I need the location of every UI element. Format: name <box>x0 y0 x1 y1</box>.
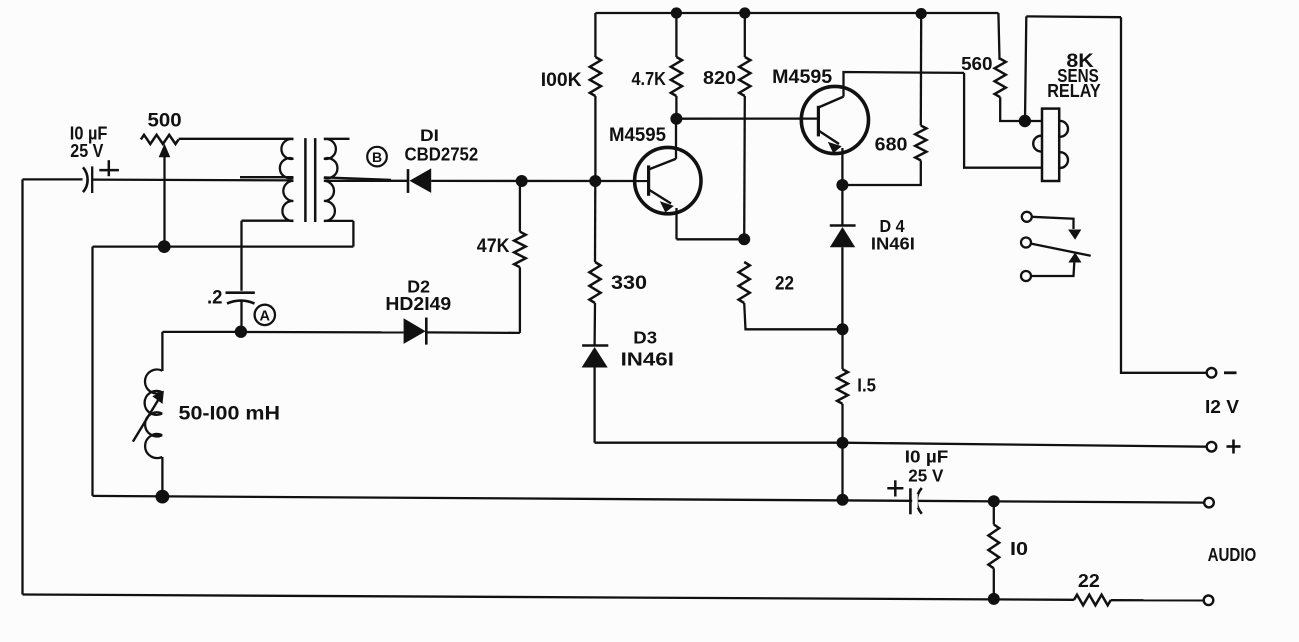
label minus sign <box>1224 371 1237 374</box>
label 680 <box>875 134 908 155</box>
wire Q1 emitter down <box>675 208 677 239</box>
wire top rail segment 2 (relay to minus) <box>1026 15 1121 18</box>
svg-text:HD2I49: HD2I49 <box>385 293 451 314</box>
transformer T1 secondary winding (right, 4 loops) <box>324 139 338 221</box>
resistor 22 zigzag (audio series) <box>1074 595 1111 606</box>
junction dot inductor / mid rail <box>156 490 170 504</box>
wire C2 bottom to node A dot <box>240 301 242 332</box>
wire 820 down to emitter junction crossing base line <box>743 96 746 239</box>
terminal circle minus <box>1207 368 1217 378</box>
label 10 <box>1010 539 1028 559</box>
label 330 <box>611 273 647 294</box>
wire 4.7K to Q2 base junction <box>675 96 677 119</box>
svg-text:25 V: 25 V <box>70 140 104 161</box>
junction dot bottom rail / 10 resistor <box>988 593 1000 605</box>
node B letter <box>372 149 382 165</box>
wire T1 primary bottom lead left <box>242 220 294 222</box>
wire base junction down to 330 <box>594 181 597 262</box>
junction dot D1 / 47K <box>516 175 528 187</box>
svg-text:I.5: I.5 <box>857 375 876 396</box>
wire 1.5 bottom to +12V line <box>841 404 843 443</box>
label 22 (audio series) <box>1078 571 1100 591</box>
capacitor C1 polarity + sign <box>99 160 119 176</box>
wire minus terminal from rail2 <box>1121 17 1207 373</box>
junction dot 4.7K / Q2 base / Q1 collector <box>670 113 682 125</box>
svg-text:50-I00 mH: 50-I00 mH <box>179 403 281 424</box>
label 820 <box>703 67 736 88</box>
svg-text:CBD2752: CBD2752 <box>405 144 479 165</box>
label D1 designator <box>420 127 439 145</box>
svg-text:560: 560 <box>961 53 992 74</box>
label C1 value 25V <box>70 140 104 161</box>
wire 47K top lead to node-B line <box>519 181 521 232</box>
label D3 part number 1N461 <box>621 348 674 369</box>
label plus sign <box>1227 440 1241 454</box>
wire emitter junction down to D4 <box>841 185 843 226</box>
wire +12V line from D3 to terminal <box>595 443 1207 447</box>
label relay SENS <box>1057 65 1099 86</box>
wire rail to 4.7K <box>675 13 677 57</box>
capacitor C3 polarity + sign <box>887 480 903 496</box>
junction dot 1.5 / +12V line <box>837 437 849 449</box>
junction dot 100K / base line <box>589 175 601 187</box>
capacitor C3 gap mask <box>912 494 918 508</box>
resistor 47K zigzag <box>514 232 526 268</box>
junction dot rail / 820 <box>739 7 750 18</box>
svg-text:22: 22 <box>1078 571 1100 591</box>
transistor Q1 emitter arrow head <box>660 201 674 212</box>
relay contact bottom fixed wire <box>1031 263 1074 277</box>
wire pot wiper vertical down to junction <box>163 156 165 247</box>
label AUDIO <box>1208 545 1257 565</box>
svg-text:22: 22 <box>775 274 794 295</box>
wire D3 anode down to +12V line corner <box>593 368 595 443</box>
relay contact top fixed wire <box>1032 217 1074 229</box>
wire T1 secondary bottom lead right <box>324 220 354 222</box>
wire mid rail to 10 resistor <box>993 501 995 524</box>
transistor Q1 emitter slant <box>649 190 671 204</box>
resistor 330 zigzag <box>589 262 600 303</box>
label R1 value 500 <box>148 111 182 132</box>
label relay RELAY <box>1047 80 1101 101</box>
junction dot 560 / relay coil / rail2 <box>1019 115 1031 127</box>
wire D2 to 47K corner <box>426 331 520 334</box>
diode D4 cathode bar <box>830 224 856 227</box>
transformer T1 primary winding (left, 4 loops) <box>280 139 294 221</box>
capacitor C3 curved plate <box>917 488 922 514</box>
svg-text:AUDIO: AUDIO <box>1208 545 1257 565</box>
transistor Q1 circle <box>635 147 701 213</box>
wire Q1 collector up to 4.7K junction <box>675 119 677 159</box>
resistor 560 zigzag <box>995 59 1006 97</box>
wire rail to 680 <box>920 13 923 126</box>
diode D2 HD2149 triangle <box>404 318 426 344</box>
resistor 4.7K zigzag <box>671 57 682 96</box>
relay contact terminal circle middle <box>1021 238 1031 248</box>
resistor 680 zigzag <box>915 126 926 161</box>
svg-text:4.7K: 4.7K <box>632 68 667 89</box>
svg-text:500: 500 <box>148 111 182 132</box>
svg-text:B: B <box>372 149 382 165</box>
wire T1 primary bottom down to C2 <box>240 221 242 291</box>
svg-text:330: 330 <box>611 273 647 294</box>
label Q1 type M4595 <box>609 125 666 146</box>
node B circle <box>367 147 387 167</box>
wire 1.5 junction down to mid rail <box>841 443 843 500</box>
wire secondary-return horizontal y246 <box>93 245 354 247</box>
wire 560 bottom to relay junction <box>1000 97 1025 121</box>
wire 22 bottom corner to D4 line <box>744 303 842 329</box>
label D4 designator <box>880 216 905 236</box>
label relay 8K <box>1066 50 1093 72</box>
diode D3 cathode bar <box>582 344 608 347</box>
wire relay junction to coil <box>1025 120 1042 122</box>
label 47K <box>477 236 510 257</box>
capacitor C2 0.2uF curved plate <box>227 301 255 304</box>
wire D1 to base of Q1 (node-B line) <box>431 180 648 182</box>
wire T1 secondary to D1 <box>386 180 408 182</box>
transistor Q2 emitter arrow head <box>828 142 842 153</box>
wire T1 secondary bottom down to return line <box>352 221 354 247</box>
junction dot 22 / D4 anode / 1.5 <box>837 323 849 335</box>
svg-text:M4595: M4595 <box>772 67 832 88</box>
capacitor C2 0.2uF top plate <box>226 291 255 294</box>
svg-text:47K: 47K <box>477 236 510 257</box>
wire mid rail <box>93 496 1205 503</box>
wire T1 primary lower lead tap stubs <box>240 176 293 178</box>
svg-text:DI: DI <box>420 127 439 145</box>
wire Q2 base line <box>676 117 818 119</box>
label D2 designator <box>407 277 430 297</box>
wire Q2 emitter down to junction <box>841 148 843 185</box>
svg-text:I0 µF: I0 µF <box>905 446 949 466</box>
diode D1 triangle (pointing left) <box>410 168 432 193</box>
svg-text:680: 680 <box>875 134 908 155</box>
wire from C1 to transformer primary centre tap <box>92 178 293 181</box>
label 4.7K <box>632 68 667 89</box>
wire 10 resistor to bottom rail <box>993 568 995 599</box>
label 100K <box>541 69 582 91</box>
resistor 100K zigzag <box>590 57 601 96</box>
transistor Q2 base bar <box>817 106 820 137</box>
wire pot right end to transformer primary top <box>179 138 294 140</box>
terminal circle audio top <box>1204 498 1214 508</box>
transistor Q1 collector slant <box>649 159 676 170</box>
wire 100K to base line junction <box>594 96 596 181</box>
svg-text:M4595: M4595 <box>609 125 666 146</box>
wire secondary-return corner down at x92 <box>91 247 93 496</box>
wire Q2 collector up and right <box>844 72 965 97</box>
svg-text:25 V: 25 V <box>908 465 943 485</box>
wire rail corner down to 560 <box>998 13 1000 59</box>
junction dot rail / 4.7K <box>671 7 682 18</box>
potentiometer R1 500 zigzag <box>141 135 179 144</box>
capacitor C1 10uF 25V (input coupling, curved plate) <box>83 167 88 192</box>
label 12 V <box>1205 396 1240 417</box>
inductor L1 variable arrow shaft <box>133 397 160 442</box>
relay contact terminal circle top <box>1022 212 1032 222</box>
wire top supply rail <box>595 12 998 14</box>
svg-text:IN46I: IN46I <box>871 233 915 253</box>
svg-text:IN46I: IN46I <box>621 348 674 369</box>
wire 22 to audio bottom terminal <box>1111 599 1204 601</box>
label L1 value 50-100 mH <box>179 403 281 424</box>
relay contact bottom arrow (up) <box>1068 253 1081 263</box>
terminal circle plus <box>1207 442 1217 452</box>
junction dot mid rail / 10 resistor <box>988 495 1000 507</box>
wire D4 anode down to 22/1.5 junction <box>841 247 843 329</box>
relay K1 coil left bump <box>1033 136 1042 152</box>
label Q2 type M4595 <box>772 67 832 88</box>
wire 330 to D3 <box>593 303 596 346</box>
wire Q2 collector down right side to relay coil bottom <box>964 73 1042 168</box>
junction dot Q2 emitter / 680 / D4 <box>836 179 848 191</box>
capacitor C3 10uF straight plate <box>909 488 912 514</box>
wire 47K bottom lead <box>519 267 521 333</box>
wire rail to 100K <box>594 13 596 57</box>
label C1 value 10uF <box>70 123 108 144</box>
svg-text:A: A <box>260 309 271 325</box>
diode D1 CBD2752 cathode bar <box>407 169 410 193</box>
label D2 part number HD2149 <box>385 293 451 314</box>
wire inductor bottom lead <box>161 457 163 497</box>
label D1 part number CBD2752 <box>405 144 479 165</box>
junction dot mid rail / 1.5 branch <box>837 494 849 506</box>
diode D4 triangle (pointing up) <box>830 227 855 247</box>
junction dot rail / 680 <box>916 8 927 19</box>
svg-text:.2: .2 <box>207 287 223 308</box>
diode D2 cathode bar <box>425 318 428 345</box>
relay K1 coil right bumps <box>1059 121 1068 168</box>
inductor L1 variable arrow head <box>152 391 164 404</box>
node A letter <box>260 309 271 325</box>
resistor 22 zigzag <box>739 262 750 303</box>
resistor 10 zigzag <box>988 525 999 569</box>
relay contact top arrow (down) <box>1068 230 1081 240</box>
relay K1 coil body rectangle <box>1042 109 1059 181</box>
resistor 820 zigzag <box>739 57 750 96</box>
terminal circle audio bottom <box>1204 596 1214 606</box>
label C3 value 25V <box>908 465 943 485</box>
svg-text:D3: D3 <box>633 328 657 348</box>
relay contact terminal circle bottom <box>1021 271 1031 281</box>
inductor L1 50-100mH winding (4 loops) <box>145 370 163 459</box>
svg-text:I2 V: I2 V <box>1205 396 1240 417</box>
resistor 1.5 zigzag <box>837 369 848 404</box>
relay contact movable blade <box>1031 244 1091 256</box>
wire T1 secondary top stub <box>324 138 350 140</box>
junction dot node A <box>235 326 247 338</box>
svg-text:I0: I0 <box>1010 539 1028 559</box>
node A circle <box>255 305 275 325</box>
wire D4 junction down to 1.5 <box>841 329 843 369</box>
potentiometer R1 wiper arrow head <box>159 144 171 158</box>
svg-text:820: 820 <box>703 67 736 88</box>
diode D3 triangle (pointing up) <box>582 347 608 368</box>
svg-text:I00K: I00K <box>541 69 582 91</box>
wire node-A line to inductor top corner <box>162 331 241 333</box>
transistor Q2 emitter slant <box>818 131 839 145</box>
wire input top horizontal into C1 <box>23 178 83 180</box>
label 22 (emitter resistor) <box>775 274 794 295</box>
wire T1 secondary mid leads to node B <box>324 177 391 180</box>
junction dot pot wiper / secondary return <box>158 240 171 253</box>
transformer T1 core lines <box>305 138 315 222</box>
transistor Q2 circle <box>801 86 868 153</box>
wire 680 bottom to emitter junction <box>842 160 920 185</box>
wire rail to 820 <box>744 13 746 57</box>
wire rail2 vertical from top to relay junction <box>1025 16 1026 121</box>
capacitor C1 straight plate <box>91 166 93 193</box>
svg-text:RELAY: RELAY <box>1047 80 1101 101</box>
junction dot Q1 emitter / 820 / 22 <box>738 233 750 245</box>
wire Q1 emitter to 820/22 junction <box>677 238 745 240</box>
wire node A to D2 <box>241 331 404 334</box>
wire inductor top lead <box>161 332 163 371</box>
label C2 value .2 <box>207 287 223 308</box>
label D4 part number 1N461 <box>871 233 915 253</box>
label D3 designator <box>633 328 657 348</box>
wire input left vertical from coupling cap down to bottom audio rail <box>21 179 23 594</box>
transistor Q1 base bar <box>647 165 650 195</box>
label 560 <box>961 53 992 74</box>
transistor Q2 collector slant <box>818 97 843 108</box>
wire bottom rail left of 22 <box>23 595 1074 600</box>
label C3 value 10uF <box>905 446 949 466</box>
label 1.5 <box>857 375 876 396</box>
